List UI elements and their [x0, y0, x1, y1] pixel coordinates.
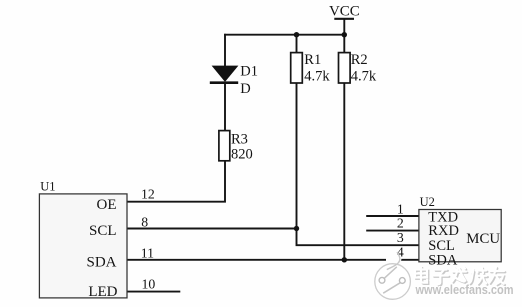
watermark text fa — [452, 267, 467, 283]
node junction SDA at R2 branch — [342, 257, 347, 262]
svg-text:10: 10 — [142, 276, 156, 291]
svg-text:R1: R1 — [304, 52, 321, 68]
watermark logo strokes — [379, 252, 405, 293]
wire diode to R3 — [224, 83, 226, 131]
svg-text:SCL: SCL — [89, 223, 117, 239]
resistor R1 — [291, 53, 303, 83]
wire SDA rail from U1 pin 11 to U2 pin 4 — [127, 259, 420, 261]
svg-text:4.7k: 4.7k — [351, 68, 377, 84]
svg-text:D: D — [240, 81, 250, 97]
IC box U1 — [39, 194, 127, 298]
watermark text zi — [433, 270, 449, 286]
svg-text:SDA: SDA — [428, 253, 458, 269]
IC box U2 MCU — [419, 210, 501, 262]
svg-text:D1: D1 — [240, 64, 258, 80]
svg-text:VCC: VCC — [329, 3, 360, 19]
wire LED stub pin 10 — [127, 291, 181, 293]
svg-text:www.elecfans.com: www.elecfans.com — [415, 282, 514, 297]
svg-text:R3: R3 — [231, 131, 248, 147]
svg-text:8: 8 — [141, 214, 148, 229]
wire R1 upper stub — [296, 34, 298, 54]
node junction at R1 top rail — [294, 32, 299, 37]
svg-text:12: 12 — [141, 186, 155, 201]
resistor R3 — [219, 131, 230, 161]
wire R1 down and to U2 pin 3 SCL — [297, 83, 420, 246]
svg-text:OE: OE — [97, 197, 117, 213]
wire top rail from diode branch to VCC — [224, 34, 345, 36]
resistor R2 — [339, 53, 351, 83]
svg-text:MCU: MCU — [466, 231, 500, 247]
wire U2 pin 1 stub — [366, 215, 419, 217]
svg-text:R2: R2 — [351, 52, 368, 68]
wire SCL from U1 pin 8 — [127, 228, 297, 230]
node junction SCL at R1 branch — [294, 226, 299, 231]
wire R3 to OE pin 12 — [127, 161, 226, 202]
wire diode branch upper — [224, 34, 226, 67]
watermark logo circle — [375, 252, 411, 299]
watermark url www.elecfans.com — [414, 281, 514, 297]
svg-text:11: 11 — [141, 245, 154, 260]
svg-text:U2: U2 — [420, 195, 435, 209]
svg-text:1: 1 — [397, 202, 404, 217]
wire U2 pin 2 stub — [366, 230, 419, 232]
wire R2 down to SDA rail — [343, 83, 345, 260]
power symbol VCC — [334, 19, 354, 54]
watermark text shao — [470, 268, 488, 285]
svg-text:SDA: SDA — [86, 254, 116, 270]
svg-text:820: 820 — [231, 147, 253, 163]
svg-text:3: 3 — [397, 230, 404, 245]
svg-text:LED: LED — [88, 284, 117, 300]
watermark text dian — [415, 267, 428, 284]
svg-text:U1: U1 — [40, 180, 55, 194]
diode D1 — [210, 66, 239, 83]
svg-text:4.7k: 4.7k — [304, 68, 330, 84]
node junction at VCC rail — [342, 32, 347, 37]
watermark text you — [490, 267, 506, 285]
svg-text:2: 2 — [397, 215, 404, 230]
svg-text:RXD: RXD — [428, 223, 459, 239]
